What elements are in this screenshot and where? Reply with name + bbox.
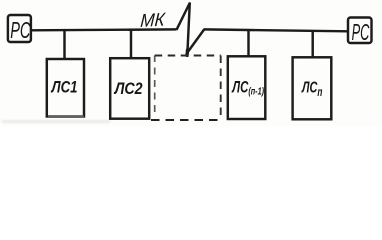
- svg-text:ЛС2: ЛС2: [114, 80, 143, 98]
- svg-text:МК: МК: [140, 9, 167, 31]
- svg-text:РС: РС: [352, 19, 370, 45]
- svg-text:ЛС(п-1): ЛС(п-1): [231, 79, 264, 98]
- svg-text:ЛС1: ЛС1: [51, 79, 78, 97]
- svg-text:РС: РС: [10, 18, 31, 44]
- svg-text:ЛСп: ЛСп: [301, 78, 323, 99]
